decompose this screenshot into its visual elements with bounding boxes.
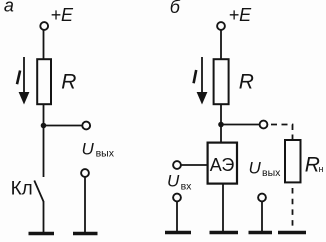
label Rn bbox=[305, 153, 324, 176]
label I left bbox=[17, 71, 20, 85]
svg-text:б: б bbox=[170, 0, 181, 17]
junction node right bbox=[218, 122, 224, 128]
wire resistor R to node left bbox=[43, 104, 45, 126]
junction node left bbox=[41, 123, 47, 129]
wire switch to ground left bbox=[43, 202, 45, 233]
wire output terminal to ground right bbox=[261, 202, 263, 232]
wire node to switch left bbox=[43, 126, 45, 178]
svg-text:+E: +E bbox=[51, 5, 75, 25]
active element AE box bbox=[208, 143, 237, 184]
svg-text:АЭ: АЭ bbox=[210, 155, 235, 175]
label Uvkh bbox=[167, 172, 192, 193]
svg-text:вых: вых bbox=[262, 167, 281, 179]
ground Rn bbox=[278, 231, 306, 235]
label Uvykh left bbox=[82, 140, 115, 160]
terminal +E right bbox=[217, 22, 225, 30]
current arrow I right bbox=[197, 57, 208, 105]
wire node to output terminal left bbox=[44, 125, 83, 127]
wire resistor R to node right bbox=[220, 104, 222, 125]
ground output right bbox=[249, 231, 273, 235]
dashed wire Rn to ground bbox=[292, 188, 294, 230]
ground left output bbox=[73, 232, 98, 236]
terminal +E left bbox=[40, 22, 48, 30]
svg-text:U: U bbox=[82, 140, 95, 159]
terminal Uvkh bottom bbox=[173, 194, 181, 202]
svg-text:а: а bbox=[4, 0, 14, 16]
wire input lower terminal to ground bbox=[176, 202, 178, 232]
wire lower output terminal to ground left bbox=[84, 177, 86, 232]
wire input terminal to AE box bbox=[181, 164, 208, 166]
terminal Uvykh top left bbox=[82, 122, 90, 130]
terminal Uvykh right bbox=[258, 194, 266, 202]
switch Kl blade bbox=[34, 181, 43, 203]
svg-text:вх: вх bbox=[181, 181, 193, 193]
svg-text:Кл: Кл bbox=[11, 179, 33, 200]
resistor R right bbox=[214, 59, 229, 104]
input terminal Uvkh bbox=[173, 161, 181, 169]
svg-text:U: U bbox=[167, 172, 180, 191]
ground left main bbox=[29, 232, 55, 236]
svg-text:вых: вых bbox=[96, 147, 115, 159]
label I right bbox=[194, 70, 197, 83]
wire node to output terminal right bbox=[221, 124, 260, 126]
ground AE bbox=[210, 231, 239, 235]
current arrow I left bbox=[19, 57, 30, 105]
svg-text:U: U bbox=[249, 159, 262, 178]
wire +E terminal to resistor R right bbox=[220, 30, 222, 60]
terminal Uvykh bottom left bbox=[81, 169, 89, 177]
dashed wire terminal to load resistor Rn bbox=[271, 125, 293, 140]
wire +E terminal to resistor R left bbox=[43, 30, 45, 60]
ground input bbox=[165, 231, 191, 235]
svg-text:R: R bbox=[239, 70, 254, 93]
svg-text:н: н bbox=[319, 164, 324, 174]
label Uvykh right bbox=[249, 159, 282, 179]
svg-text:R: R bbox=[61, 70, 76, 93]
wire AE box to ground bbox=[222, 184, 224, 232]
terminal output right bbox=[260, 121, 268, 129]
svg-text:+E: +E bbox=[229, 5, 253, 25]
wire node to AE box bbox=[220, 125, 222, 143]
load resistor Rn bbox=[285, 140, 301, 182]
resistor R left bbox=[37, 59, 51, 104]
